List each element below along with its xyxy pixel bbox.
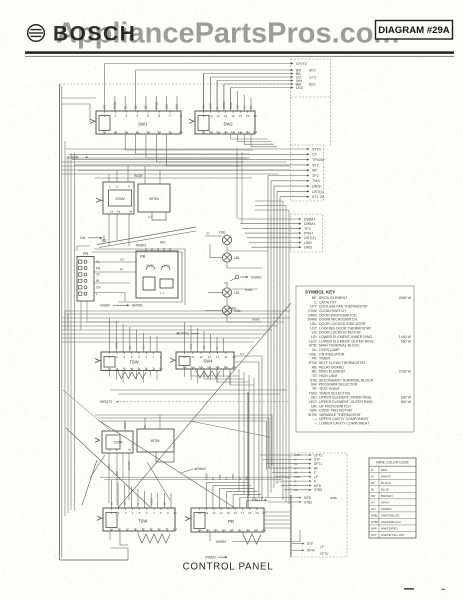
svg-text:W/BL: W/BL <box>371 514 379 518</box>
svg-text:1 L/NR: 1 L/NR <box>115 471 119 480</box>
svg-text:8: 8 <box>180 114 182 118</box>
svg-text:17: 17 <box>241 511 245 515</box>
svg-text:BROWN: BROWN <box>381 494 393 498</box>
svg-text:W/R: W/R <box>208 102 212 109</box>
svg-text:WIRE COLOR CODE: WIRE COLOR CODE <box>376 461 409 465</box>
svg-text:GY: GY <box>123 501 127 505</box>
svg-text:WHITE/BLUE: WHITE/BLUE <box>381 514 399 518</box>
svg-text:STF2: STF2 <box>312 147 321 151</box>
svg-text:W/BK: W/BK <box>149 498 153 505</box>
svg-text:15: 15 <box>224 355 228 359</box>
svg-text:WHITE/BLACK: WHITE/BLACK <box>381 520 401 524</box>
svg-text:BL: BL <box>143 424 147 428</box>
svg-text:10: 10 <box>209 114 213 118</box>
svg-text:1 SWA: 1 SWA <box>68 156 79 160</box>
svg-text:13: 13 <box>212 511 216 515</box>
svg-text:TFM/AF: TFM/AF <box>312 158 326 162</box>
svg-text:UM2: UM2 <box>304 241 312 245</box>
svg-text:PR: PR <box>83 252 89 256</box>
svg-text:WH: WH <box>165 103 169 109</box>
svg-text:WH: WH <box>160 241 166 245</box>
svg-text:R: R <box>136 503 140 505</box>
svg-text:DWM1: DWM1 <box>205 556 216 560</box>
svg-text:W/BL: W/BL <box>229 101 233 109</box>
svg-text:2-0: 2-0 <box>148 215 153 219</box>
svg-text:LP: LP <box>320 545 324 549</box>
svg-text:W/RB1: W/RB1 <box>132 304 143 308</box>
svg-text:SW2: SW2 <box>223 121 233 126</box>
svg-text:12: 12 <box>205 511 209 515</box>
svg-text:GY: GY <box>294 466 298 470</box>
svg-text:W/BL: W/BL <box>113 101 117 109</box>
svg-text:W: W <box>96 279 99 283</box>
svg-text:1-1: 1-1 <box>160 291 165 295</box>
svg-text:1a: 1a <box>110 210 114 214</box>
svg-text:DWM1: DWM1 <box>304 222 315 226</box>
svg-text:GY: GY <box>240 352 244 356</box>
svg-text:KT1 2A: KT1 2A <box>312 195 325 199</box>
svg-text:5: 5 <box>147 114 149 118</box>
svg-text:2000 W: 2000 W <box>399 296 412 300</box>
svg-text:10: 10 <box>183 355 187 359</box>
svg-text:STB2: STB2 <box>304 500 312 504</box>
svg-text:DWM2: DWM2 <box>196 467 206 471</box>
svg-text:DIAGRAM #29A: DIAGRAM #29A <box>378 25 450 36</box>
svg-text:500 W: 500 W <box>401 400 412 404</box>
svg-text:RB: RB <box>140 254 146 259</box>
svg-text:W: W <box>371 474 374 478</box>
svg-text:BK: BK <box>294 471 298 475</box>
svg-text:DWM2: DWM2 <box>304 217 315 221</box>
svg-text:TSW: TSW <box>138 518 147 523</box>
svg-text:L1 CV: L1 CV <box>162 264 170 268</box>
svg-text:BK: BK <box>202 105 206 109</box>
svg-text:GN/BK: GN/BK <box>127 461 131 470</box>
svg-text:W/BL: W/BL <box>154 101 158 109</box>
svg-text:GREEN: GREEN <box>381 507 392 511</box>
svg-text:2030 W: 2030 W <box>399 370 412 374</box>
svg-text:14: 14 <box>239 114 243 118</box>
svg-text:CSW2a: CSW2a <box>178 332 189 336</box>
svg-text:LED: LED <box>296 86 304 90</box>
svg-text:MF: MF <box>312 169 318 173</box>
svg-text:14: 14 <box>216 355 220 359</box>
svg-text:ONL: ONL <box>234 309 241 313</box>
svg-text:STF: STF <box>307 542 313 546</box>
svg-text:BL: BL <box>110 501 114 505</box>
svg-text:CSW: CSW <box>114 441 123 445</box>
svg-text:BLACK: BLACK <box>381 481 391 485</box>
svg-text:15: 15 <box>227 511 231 515</box>
svg-text:BR: BR <box>294 488 298 492</box>
svg-text:WQB: WQB <box>134 174 143 178</box>
svg-text:R: R <box>215 347 219 349</box>
svg-text:10: 10 <box>173 511 177 515</box>
svg-text:STB2: STB2 <box>314 488 322 492</box>
svg-text:W/RB2: W/RB2 <box>216 540 226 544</box>
svg-text:31 32: 31 32 <box>146 264 154 268</box>
svg-text:GY: GY <box>142 345 146 349</box>
svg-text:TSW: TSW <box>129 359 138 364</box>
svg-text:13: 13 <box>231 114 235 118</box>
svg-text:TF: TF <box>96 273 100 277</box>
svg-text:W/BK: W/BK <box>204 473 208 480</box>
svg-text:BOSCH: BOSCH <box>53 23 136 46</box>
svg-text:BK: BK <box>249 105 253 109</box>
svg-text:15: 15 <box>246 114 250 118</box>
svg-text:16: 16 <box>234 511 238 515</box>
svg-text:4: 4 <box>128 185 130 189</box>
svg-text:WH: WH <box>189 344 193 349</box>
svg-text:GN/BK: GN/BK <box>100 304 111 308</box>
svg-text:TMS: TMS <box>312 179 320 183</box>
svg-text:BL: BL <box>371 487 375 491</box>
svg-text:UM3: UM3 <box>304 246 312 250</box>
svg-text:12: 12 <box>199 355 203 359</box>
svg-text:R: R <box>294 479 296 483</box>
svg-text:BL: BL <box>202 345 206 349</box>
svg-text:M: M <box>120 268 123 272</box>
svg-text:WRQT2: WRQT2 <box>100 400 112 404</box>
svg-text:BR2: BR2 <box>309 68 316 72</box>
svg-text:W/RB1: W/RB1 <box>136 244 147 248</box>
svg-text:11: 11 <box>217 114 220 118</box>
svg-text:WHITE/YELLOW: WHITE/YELLOW <box>381 533 404 537</box>
svg-text:SYMBOL KEY: SYMBOL KEY <box>305 290 335 295</box>
svg-text:4: 4 <box>136 114 138 118</box>
svg-text:GY: GY <box>107 464 111 468</box>
svg-text:2: 2 <box>116 185 118 189</box>
svg-text:BK: BK <box>371 481 375 485</box>
svg-text:--:: --: <box>314 422 317 426</box>
svg-text:W/BK: W/BK <box>123 422 127 429</box>
svg-text:TF2: TF2 <box>312 174 319 178</box>
svg-text:RED: RED <box>381 468 388 472</box>
svg-text:PBA L2: PBA L2 <box>252 498 263 502</box>
svg-text:1a: 1a <box>108 448 112 452</box>
svg-text:11: 11 <box>191 355 194 359</box>
svg-text:GY: GY <box>371 501 375 505</box>
svg-text:ONL: ONL <box>219 231 226 235</box>
svg-text:7: 7 <box>169 114 171 118</box>
svg-text:UST(1): UST(1) <box>312 190 324 194</box>
svg-text:ST2: ST2 <box>312 163 319 167</box>
svg-text:CFTV: CFTV <box>320 552 329 556</box>
svg-text:GY3: GY3 <box>309 75 316 79</box>
svg-text:W/R: W/R <box>371 527 378 531</box>
svg-text:2: 2 <box>114 114 116 118</box>
svg-text:CONTROL PANEL: CONTROL PANEL <box>183 562 274 573</box>
svg-text:PB: PB <box>96 266 100 270</box>
svg-text:GN: GN <box>80 236 86 240</box>
svg-text:BK2: BK2 <box>309 82 316 86</box>
svg-text:W/BL: W/BL <box>294 475 301 479</box>
svg-text:BL: BL <box>294 462 298 466</box>
svg-text:2a: 2a <box>115 448 119 452</box>
svg-text:1: 1 <box>104 114 106 118</box>
svg-text:PR: PR <box>228 519 234 524</box>
svg-text:12: 12 <box>224 114 228 118</box>
svg-text:6: 6 <box>158 114 160 118</box>
svg-text:1: 1 <box>109 185 111 189</box>
svg-text:2a: 2a <box>117 210 121 214</box>
svg-text:4a: 4a <box>128 448 132 452</box>
svg-text:4a: 4a <box>129 210 133 214</box>
svg-text:SW1: SW1 <box>138 121 148 126</box>
svg-text:CN: CN <box>96 286 101 290</box>
svg-text:18: 18 <box>248 511 252 515</box>
svg-text:PR/H: PR/H <box>304 232 313 236</box>
svg-text:GN: GN <box>371 507 376 511</box>
svg-text:GY: GY <box>163 501 167 505</box>
svg-text:WTM: WTM <box>150 439 159 443</box>
svg-text:UM/2: UM/2 <box>312 185 321 189</box>
svg-text:WTM: WTM <box>307 549 315 553</box>
svg-text:11: 11 <box>198 511 201 515</box>
svg-text:CSW: CSW <box>115 196 124 201</box>
svg-text:W/BK: W/BK <box>252 318 260 322</box>
svg-text:W/BK: W/BK <box>222 101 226 109</box>
svg-text:BL: BL <box>123 105 127 109</box>
svg-text:WTM: WTM <box>149 196 158 201</box>
svg-text:WH: WH <box>175 103 179 109</box>
svg-text:WHITE: WHITE <box>381 474 391 478</box>
svg-text:LBL: LBL <box>234 256 240 260</box>
svg-text:14: 14 <box>219 511 223 515</box>
svg-text:MTB: MTB <box>304 496 311 500</box>
svg-text:SW4: SW4 <box>203 359 213 364</box>
svg-text:UST(1): UST(1) <box>304 236 316 240</box>
svg-text:3: 3 <box>125 114 127 118</box>
svg-text:GY/Y2: GY/Y2 <box>296 62 307 66</box>
svg-text:16: 16 <box>253 114 257 118</box>
svg-text:DWM2: DWM2 <box>251 275 261 279</box>
svg-text:W/BL: W/BL <box>231 473 235 480</box>
svg-text:W/Y: W/Y <box>371 533 377 537</box>
svg-text:30: 30 <box>206 232 210 236</box>
svg-text:BL: BL <box>128 345 132 349</box>
svg-text:WHITE/RED: WHITE/RED <box>381 527 399 531</box>
svg-text:W/BK: W/BK <box>371 520 379 524</box>
svg-text:W/BK: W/BK <box>294 453 301 457</box>
svg-text:TF3: TF3 <box>304 227 311 231</box>
svg-text:13: 13 <box>208 355 212 359</box>
svg-text:19: 19 <box>255 511 259 515</box>
svg-text:W/BK: W/BK <box>114 342 118 349</box>
svg-text:600 W: 600 W <box>401 339 412 343</box>
svg-text:GRAY: GRAY <box>381 501 389 505</box>
svg-text:CF: CF <box>312 153 318 157</box>
svg-text:LBL: LBL <box>234 291 240 295</box>
svg-text:GY: GY <box>242 105 246 109</box>
svg-text:W/BL: W/BL <box>330 496 338 500</box>
svg-text:BLUE: BLUE <box>381 487 389 491</box>
svg-text:LOWER CAVITY COMPONENT: LOWER CAVITY COMPONENT <box>319 422 370 426</box>
